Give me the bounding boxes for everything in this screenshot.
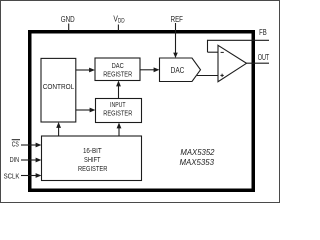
- svg-text:REGISTER: REGISTER: [103, 109, 132, 118]
- svg-text:REGISTER: REGISTER: [78, 164, 108, 173]
- svg-text:CONTROL: CONTROL: [43, 82, 75, 91]
- svg-text:DAC: DAC: [171, 66, 185, 75]
- svg-text:OUT: OUT: [258, 53, 270, 62]
- svg-text:MAX5352: MAX5352: [180, 147, 214, 157]
- svg-text:DIN: DIN: [10, 155, 20, 164]
- svg-text:SCLK: SCLK: [4, 172, 20, 181]
- svg-text:16-BIT: 16-BIT: [83, 146, 102, 155]
- svg-text:REF: REF: [171, 15, 183, 24]
- svg-text:CS: CS: [12, 139, 19, 148]
- svg-text:DD: DD: [118, 19, 125, 25]
- svg-text:MAX5353: MAX5353: [180, 157, 215, 167]
- svg-text:SHIFT: SHIFT: [84, 155, 101, 164]
- svg-text:FB: FB: [259, 28, 267, 37]
- svg-text:REGISTER: REGISTER: [103, 69, 132, 78]
- svg-text:GND: GND: [61, 15, 75, 24]
